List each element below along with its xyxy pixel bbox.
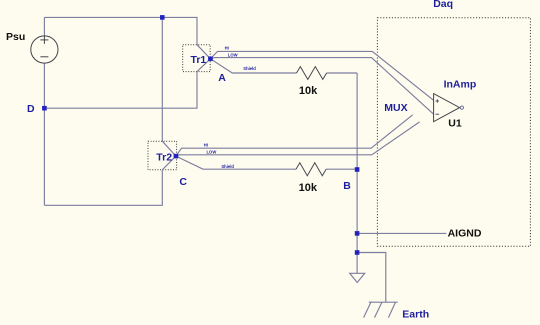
svg-text:Shield: Shield — [221, 164, 234, 169]
svg-text:Tr1: Tr1 — [191, 54, 207, 66]
svg-text:B: B — [343, 180, 351, 192]
svg-text:Daq: Daq — [433, 0, 453, 10]
svg-text:LOW: LOW — [207, 150, 217, 155]
svg-text:10k: 10k — [299, 182, 318, 194]
svg-text:MUX: MUX — [384, 102, 407, 114]
svg-text:Tr2: Tr2 — [156, 151, 172, 163]
svg-text:Shield: Shield — [243, 66, 256, 71]
svg-text:Psu: Psu — [6, 31, 25, 43]
svg-text:U1: U1 — [448, 117, 462, 129]
svg-text:InAmp: InAmp — [444, 79, 477, 91]
svg-text:AIGND: AIGND — [448, 228, 482, 240]
svg-text:Earth: Earth — [402, 308, 429, 320]
svg-text:C: C — [179, 176, 187, 188]
svg-text:HI: HI — [225, 46, 229, 51]
svg-text:HI: HI — [204, 143, 208, 148]
svg-text:LOW: LOW — [228, 53, 238, 58]
svg-text:D: D — [27, 103, 35, 115]
svg-text:10k: 10k — [299, 85, 318, 97]
svg-text:A: A — [218, 72, 226, 84]
